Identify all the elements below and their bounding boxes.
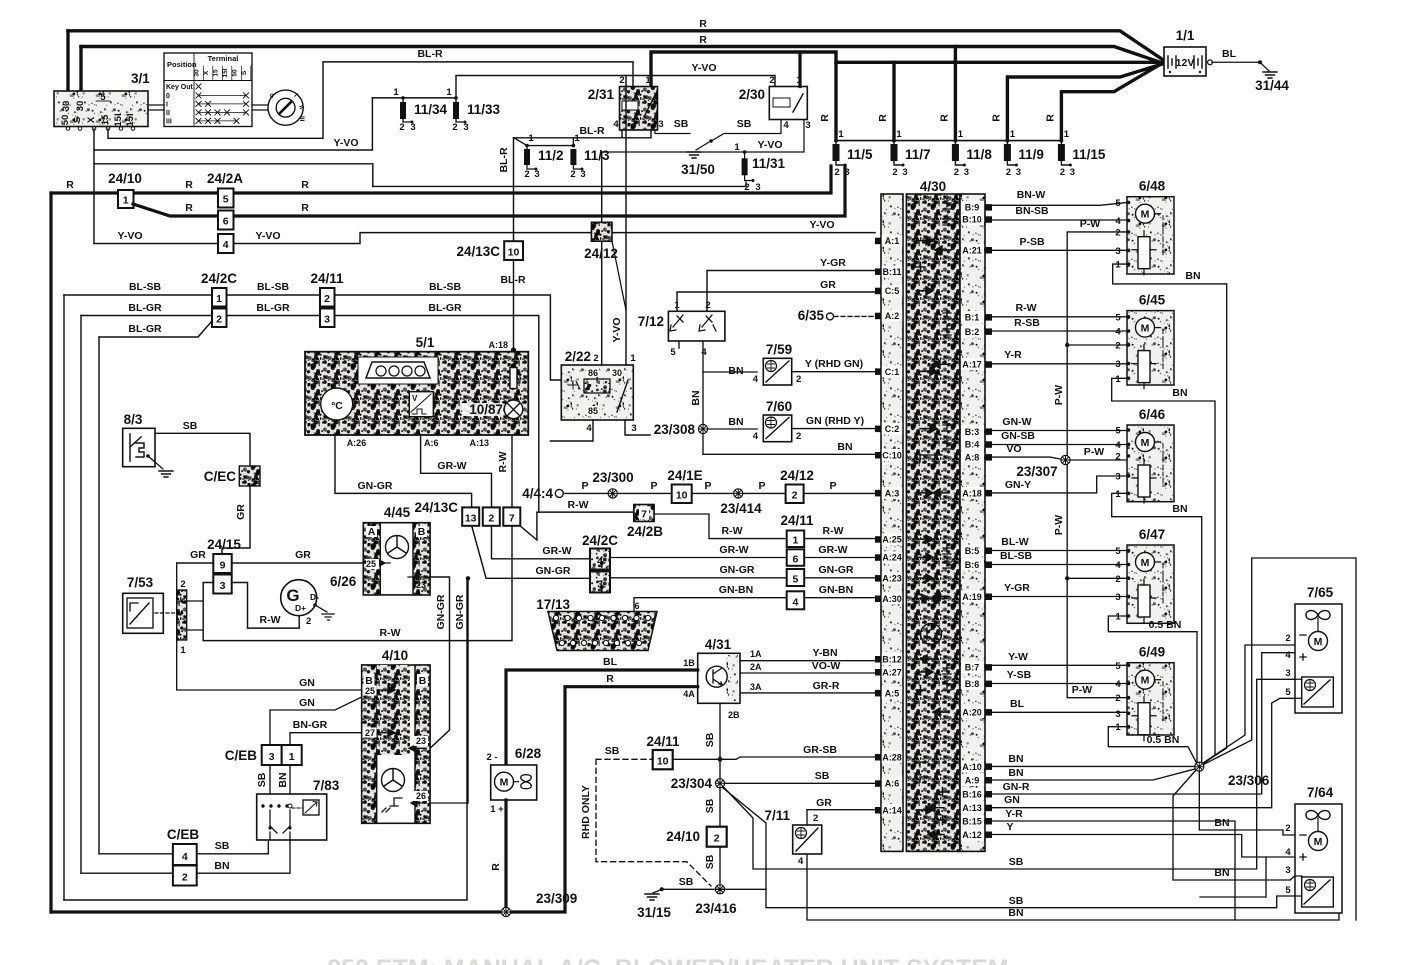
node A:12 4/30 right [961, 829, 984, 841]
svg-text:1: 1 [393, 87, 399, 98]
svg-text:11/3: 11/3 [584, 148, 610, 163]
node C:2 4/30 left [882, 423, 902, 435]
fan unit 7/64 [1295, 785, 1342, 913]
node A:19 4/30 right [961, 591, 984, 603]
svg-text:27: 27 [365, 728, 375, 738]
svg-text:R: R [938, 114, 950, 122]
wire GN 24/15 frame to 4/10 pin25 [177, 563, 362, 690]
wire 3/1 to table [148, 105, 164, 110]
key symbol [268, 90, 305, 125]
wire R-W tap from box7 [520, 512, 634, 540]
junction 23/306 [1195, 762, 1204, 771]
wire BN-GR C/EB1 to 4/10 pin27 [290, 733, 362, 745]
svg-text:2: 2 [834, 167, 839, 178]
svg-text:5: 5 [1285, 687, 1291, 698]
svg-text:24/13C: 24/13C [414, 500, 458, 515]
svg-text:R: R [490, 863, 502, 871]
svg-text:4: 4 [1115, 327, 1121, 338]
svg-text:2: 2 [744, 182, 749, 193]
svg-text:SB: SB [674, 118, 689, 130]
svg-text:1B: 1B [683, 658, 695, 668]
battery 1/1 [1164, 28, 1212, 76]
svg-text:3: 3 [410, 122, 415, 133]
wire 0.5BN 6/49 pin1 loop [1108, 727, 1196, 762]
svg-text:R: R [819, 114, 831, 122]
svg-text:7/59: 7/59 [766, 342, 792, 357]
svg-text:BN-SB: BN-SB [1015, 205, 1049, 217]
wire R riser 11/15 battery line5 [1061, 65, 1160, 141]
wire frame bottom thin [64, 578, 467, 900]
connector 17/13 [536, 597, 657, 651]
svg-text:BN: BN [214, 860, 229, 872]
node A:28 4/30 left [882, 751, 902, 763]
svg-text:C/EB: C/EB [167, 827, 200, 842]
svg-text:BN: BN [1008, 907, 1023, 919]
svg-text:4: 4 [792, 596, 798, 608]
wire Y-W [992, 664, 1127, 666]
node A:30 4/30 left [882, 593, 902, 605]
wire GN-R B:16 to 7/65 pin4 [992, 653, 1295, 794]
svg-text:III: III [166, 119, 172, 126]
svg-text:A:13: A:13 [469, 438, 489, 448]
wire R-W 24/11-1 to A:25 [804, 538, 875, 540]
thermostat 7/60 [753, 399, 802, 442]
svg-text:1: 1 [216, 293, 222, 305]
svg-text:BL-SB: BL-SB [429, 281, 461, 293]
svg-text:A:10: A:10 [962, 762, 982, 772]
svg-text:GN-BN: GN-BN [719, 584, 753, 596]
wire 2/22 pin4 stub [550, 420, 593, 441]
svg-text:23/308: 23/308 [654, 422, 696, 437]
svg-text:2: 2 [306, 616, 311, 627]
wire 4/45 pin23 to 4/10 [430, 577, 450, 748]
wire BL-SB [992, 564, 1127, 566]
wire GN A:13 to 7/65 pin5 [992, 698, 1295, 807]
wire Y-R B:15 [992, 821, 1235, 920]
svg-text:2: 2 [1115, 693, 1120, 704]
wire VO A:8 to 23/307 [992, 457, 1127, 460]
svg-text:3: 3 [463, 122, 468, 133]
svg-text:GR-W: GR-W [719, 544, 748, 556]
wire P to 23/300 [563, 492, 671, 494]
wire 23/306 up to 7/65 pin2 [1203, 645, 1295, 763]
svg-text:SB: SB [704, 854, 716, 869]
svg-text:GR: GR [820, 279, 836, 291]
wire BN 23/306 down to 7/64 pin2 [1199, 772, 1295, 836]
svg-text:4: 4 [1115, 679, 1121, 690]
svg-text:R-W: R-W [1016, 302, 1037, 314]
svg-text:4: 4 [753, 431, 759, 442]
svg-text:Y-GR: Y-GR [1004, 582, 1030, 594]
svg-text:BN-GR: BN-GR [293, 719, 328, 731]
wire GN-GR to A:23 [804, 577, 875, 579]
wire GN-GR 24/2C-3 to 24/11-5 [610, 577, 787, 579]
svg-text:BN: BN [1008, 753, 1023, 765]
wire Y-VO 2/30pin3 to 11/31 [745, 120, 804, 159]
node B:10 4/30 right [961, 213, 984, 225]
svg-text:1A: 1A [750, 649, 762, 659]
svg-text:A:25: A:25 [882, 535, 902, 545]
fuse 11/33 [446, 87, 500, 133]
svg-text:2A: 2A [750, 662, 762, 672]
svg-text:B:8: B:8 [965, 679, 980, 689]
wire left frame v64 [63, 295, 65, 900]
svg-text:1: 1 [574, 133, 580, 144]
svg-text:4/4:4: 4/4:4 [522, 486, 553, 501]
svg-text:SB: SB [605, 745, 620, 757]
node B:16 4/30 right [961, 788, 984, 800]
svg-text:6/45: 6/45 [1139, 293, 1166, 308]
svg-text:24/12: 24/12 [780, 468, 814, 483]
svg-text:III: III [298, 116, 305, 122]
svg-text:B:10: B:10 [962, 215, 982, 225]
svg-text:A:1: A:1 [885, 236, 900, 246]
node A:20 4/30 right [961, 706, 984, 718]
svg-text:24/1E: 24/1E [667, 468, 702, 483]
svg-text:B:5: B:5 [965, 546, 980, 556]
svg-text:4: 4 [586, 423, 592, 434]
svg-text:11/7: 11/7 [905, 147, 931, 162]
svg-text:SB: SB [183, 420, 198, 432]
node B:6 4/30 right [961, 559, 984, 571]
svg-text:Y-W: Y-W [1008, 651, 1028, 663]
svg-text:GN-GR: GN-GR [358, 480, 393, 492]
fuse 11/5 [819, 114, 873, 178]
svg-text:C:10: C:10 [882, 450, 902, 460]
svg-text:SB: SB [1009, 856, 1024, 868]
svg-text:B: B [419, 675, 427, 687]
svg-text:GN: GN [299, 677, 315, 689]
svg-text:7/64: 7/64 [1307, 785, 1334, 800]
relay 2/30 [739, 52, 811, 131]
wire R-W [992, 316, 1127, 318]
wire R-W 24/15-3 right to 6/26 [232, 583, 300, 629]
svg-text:3: 3 [269, 751, 275, 763]
svg-text:31/44: 31/44 [1255, 78, 1289, 93]
svg-text:17/13: 17/13 [536, 597, 570, 612]
wire 24/12 diagonal tap [612, 241, 626, 310]
svg-text:Y-VO: Y-VO [757, 139, 782, 151]
svg-text:2: 2 [1115, 452, 1120, 463]
svg-text:1/1: 1/1 [1176, 28, 1195, 43]
svg-text:M: M [1141, 322, 1150, 334]
junction 23/307 [1061, 455, 1070, 464]
generator 6/26 [281, 574, 357, 620]
svg-text:2: 2 [593, 353, 598, 364]
svg-text:SB: SB [704, 732, 716, 747]
svg-text:2: 2 [705, 300, 710, 311]
wire left frame thick R [49, 193, 52, 912]
svg-text:15I: 15I [222, 68, 229, 77]
svg-text:1: 1 [792, 535, 798, 547]
svg-text:VO-W: VO-W [812, 660, 841, 672]
svg-text:GN-BN: GN-BN [819, 584, 853, 596]
svg-text:BL-GR: BL-GR [128, 302, 162, 314]
wire R riser 11/9 battery line4 [1007, 64, 1164, 141]
svg-text:GR-R: GR-R [813, 680, 840, 692]
wire BL-R riser to 5/1 A:18 [513, 138, 515, 352]
svg-text:11/33: 11/33 [467, 102, 501, 117]
svg-text:23/300: 23/300 [592, 470, 633, 485]
wire Y-SB [992, 683, 1127, 685]
wire R riser 11/5 [834, 62, 837, 140]
node B:2 4/30 right [961, 325, 984, 337]
wire BN 23/308 to 7/59 [703, 371, 757, 373]
junction 23/300 [608, 489, 617, 498]
svg-text:A:19: A:19 [962, 592, 982, 602]
svg-text:1: 1 [289, 751, 295, 763]
wire GN(RHD Y) 7/60 to C:2 [792, 428, 875, 430]
svg-text:31/15: 31/15 [637, 905, 671, 920]
svg-text:B:11: B:11 [882, 267, 901, 277]
svg-text:BL-SB: BL-SB [129, 281, 161, 293]
svg-text:P-W: P-W [1080, 218, 1101, 230]
svg-text:1: 1 [645, 75, 651, 86]
instrument cluster 5/1 [305, 335, 528, 435]
svg-text:Y-VO: Y-VO [333, 137, 358, 149]
svg-text:GN-Y: GN-Y [1005, 479, 1031, 491]
svg-text:Y-SB: Y-SB [1007, 669, 1032, 681]
svg-text:B:3: B:3 [965, 427, 980, 437]
ignition 3/1 riser 30 b [79, 47, 82, 92]
svg-text:30: 30 [612, 368, 622, 378]
svg-text:1: 1 [1115, 612, 1121, 623]
svg-text:24/10: 24/10 [666, 829, 700, 844]
wire Y-VO 11/33 to 2/30 pin1 [456, 76, 775, 98]
svg-text:BN: BN [690, 390, 702, 405]
svg-text:GR: GR [816, 797, 832, 809]
svg-text:GN-W: GN-W [1002, 416, 1031, 428]
svg-text:R: R [606, 673, 614, 685]
fuse 11/9 [990, 114, 1044, 178]
svg-text:6: 6 [792, 553, 798, 565]
svg-text:4A: 4A [683, 689, 695, 699]
svg-text:2: 2 [1006, 167, 1011, 178]
svg-text:1: 1 [630, 353, 636, 364]
svg-text:A:6: A:6 [424, 438, 439, 448]
svg-text:1: 1 [896, 129, 902, 140]
svg-text:SB: SB [737, 118, 752, 130]
control module 4/45 [363, 505, 430, 595]
blower motor 6/28 [486, 746, 541, 815]
svg-text:6/47: 6/47 [1139, 527, 1165, 542]
svg-text:10: 10 [657, 756, 669, 768]
svg-text:A:9: A:9 [965, 775, 980, 785]
svg-text:Y-VO: Y-VO [611, 317, 623, 342]
svg-text:3: 3 [1115, 472, 1120, 483]
svg-text:5: 5 [223, 194, 229, 206]
svg-text:1: 1 [1115, 260, 1121, 271]
fuse 11/31 [734, 142, 785, 193]
svg-text:R: R [699, 18, 707, 30]
svg-text:C:2: C:2 [885, 424, 900, 434]
svg-text:3: 3 [220, 580, 226, 592]
svg-text:3: 3 [534, 169, 539, 180]
wire SB C/EB4 row [99, 840, 268, 854]
svg-text:2: 2 [1115, 574, 1120, 585]
wire P-SB [992, 249, 1127, 251]
svg-text:R-W: R-W [497, 451, 509, 472]
svg-text:2: 2 [452, 122, 457, 133]
wire Y-VO 24/2A-4 to A:1 [94, 233, 875, 244]
svg-text:6/35: 6/35 [798, 308, 825, 323]
svg-text:R-W: R-W [380, 627, 401, 639]
svg-text:Position: Position [167, 60, 197, 69]
svg-text:2: 2 [796, 431, 801, 442]
wire Y-GR [992, 596, 1127, 598]
svg-text:5/1: 5/1 [416, 335, 435, 350]
svg-text:BN: BN [277, 772, 289, 787]
wire S branch jog [94, 150, 373, 186]
svg-text:4: 4 [182, 851, 188, 863]
4/30 internal symbols [912, 199, 951, 839]
svg-text:3: 3 [631, 423, 636, 434]
svg-text:3: 3 [324, 314, 330, 326]
wire BN C/EB1 to 7/83 [289, 765, 291, 794]
svg-text:2/31: 2/31 [588, 87, 615, 102]
wire R bus top 2 [81, 47, 1158, 62]
svg-text:11/9: 11/9 [1018, 147, 1044, 162]
node B:7 4/30 right [961, 661, 984, 673]
svg-text:R-SB: R-SB [1014, 317, 1040, 329]
wire GN-Y A:18 to 6/46 pin3 [992, 476, 1127, 493]
svg-text:2: 2 [324, 293, 330, 305]
svg-text:2: 2 [1060, 167, 1065, 178]
svg-text:A:28: A:28 [882, 752, 902, 762]
node A:6 4/30 left [882, 777, 902, 789]
svg-text:23: 23 [416, 736, 426, 746]
svg-text:1: 1 [734, 142, 740, 153]
svg-text:B: B [418, 526, 426, 538]
svg-text:GN-GR: GN-GR [435, 594, 447, 629]
thermostat 7/59 [753, 342, 802, 385]
connector 24/12 speckled [591, 222, 612, 241]
wire GN-GR A:26 path [335, 435, 590, 578]
wire SB 4/31 2B vertical [719, 703, 721, 889]
node A:14 4/30 left [882, 804, 902, 816]
svg-text:4: 4 [1285, 650, 1291, 661]
wire BL [992, 711, 1127, 713]
junction 23/414 [734, 489, 743, 498]
svg-text:24/2C: 24/2C [582, 533, 618, 548]
relay 2/31 [588, 75, 664, 130]
svg-text:B:12: B:12 [882, 654, 902, 664]
svg-text:BN: BN [728, 365, 743, 377]
svg-text:6/28: 6/28 [515, 746, 542, 761]
svg-text:15: 15 [100, 114, 111, 125]
svg-text:31/50: 31/50 [681, 162, 715, 177]
svg-text:13: 13 [465, 512, 477, 524]
svg-text:7/12: 7/12 [638, 314, 664, 329]
svg-text:26: 26 [416, 791, 426, 801]
svg-text:GN (RHD Y): GN (RHD Y) [806, 415, 864, 427]
wire Y-VO riser to 24/2A-4 [93, 164, 95, 244]
node A:25 4/30 left [882, 533, 902, 545]
svg-text:R: R [877, 114, 889, 122]
svg-text:23/416: 23/416 [695, 901, 737, 916]
node A:27 4/30 left [882, 666, 902, 678]
wire Y-GR 7/12 pin1 to B:11 [707, 271, 875, 312]
wire GN-BN to A:30 [804, 597, 875, 599]
svg-text:GR-W: GR-W [542, 545, 571, 557]
svg-text:3: 3 [1285, 668, 1290, 679]
svg-text:4: 4 [783, 120, 789, 131]
svg-text:R: R [301, 179, 309, 191]
svg-text:2: 2 [399, 122, 404, 133]
svg-text:2: 2 [524, 169, 529, 180]
svg-text:6/48: 6/48 [1139, 179, 1166, 194]
svg-text:6: 6 [223, 216, 229, 228]
svg-text:30: 30 [61, 101, 72, 112]
svg-text:25: 25 [366, 559, 376, 569]
svg-text:86: 86 [588, 368, 598, 378]
svg-text:1: 1 [123, 195, 129, 207]
wire GR-W 24/2C-4 to 24/11-6 [610, 557, 787, 559]
node A:8 4/30 right [961, 451, 984, 463]
svg-text:Y-GR: Y-GR [820, 257, 846, 269]
svg-text:A:13: A:13 [962, 803, 982, 813]
svg-text:10/87: 10/87 [469, 402, 503, 417]
ignition 3/1 riser 30 a [66, 31, 69, 91]
fuse 11/8 [938, 114, 992, 178]
svg-text:B:2: B:2 [965, 327, 980, 337]
svg-text:3: 3 [902, 167, 907, 178]
svg-text:9: 9 [220, 560, 226, 572]
wire R riser 11/7 [892, 62, 895, 140]
svg-text:2: 2 [792, 490, 798, 502]
svg-text:24/15: 24/15 [207, 537, 241, 552]
wire SB C/EB3 to 7/83 [269, 765, 271, 794]
svg-text:11/15: 11/15 [1072, 147, 1106, 162]
wire BN A:10 to 23/306 [992, 765, 1194, 767]
fuse 11/3 [527, 133, 610, 180]
svg-text:3: 3 [1285, 865, 1290, 876]
svg-text:GN-GR: GN-GR [720, 564, 755, 576]
svg-text:2: 2 [488, 512, 494, 524]
svg-text:2: 2 [1115, 227, 1120, 238]
svg-text:A:8: A:8 [965, 453, 980, 463]
svg-text:4: 4 [1115, 560, 1121, 571]
svg-text:30: 30 [75, 101, 86, 112]
svg-text:3: 3 [1115, 359, 1120, 370]
svg-text:8/3: 8/3 [124, 412, 143, 427]
svg-text:2: 2 [180, 579, 185, 590]
svg-text:24/2A: 24/2A [207, 171, 243, 186]
svg-text:4: 4 [223, 239, 229, 251]
svg-text:2: 2 [1285, 823, 1290, 834]
svg-text:A:5: A:5 [885, 688, 900, 698]
node A:9 4/30 right [961, 774, 984, 786]
wire R-SB [992, 330, 1127, 332]
svg-text:R: R [185, 202, 193, 214]
svg-text:Y-VO: Y-VO [809, 219, 834, 231]
svg-text:1: 1 [446, 87, 452, 98]
svg-text:GR: GR [235, 504, 247, 520]
blower motor 6/49 [1115, 645, 1174, 741]
svg-text:4: 4 [597, 556, 603, 568]
svg-text:BL-R: BL-R [417, 48, 442, 60]
svg-text:M: M [1141, 675, 1150, 687]
svg-text:BL-GR: BL-GR [256, 302, 290, 314]
wire GN-W [992, 430, 1127, 432]
svg-text:A:30: A:30 [882, 594, 902, 604]
svg-text:3: 3 [1115, 709, 1120, 720]
blower motor 6/48 [1115, 179, 1174, 275]
wire BL-SB [64, 295, 561, 380]
svg-text:B:9: B:9 [965, 203, 980, 213]
svg-text:24/11: 24/11 [780, 513, 814, 528]
position terminal table [164, 53, 252, 127]
